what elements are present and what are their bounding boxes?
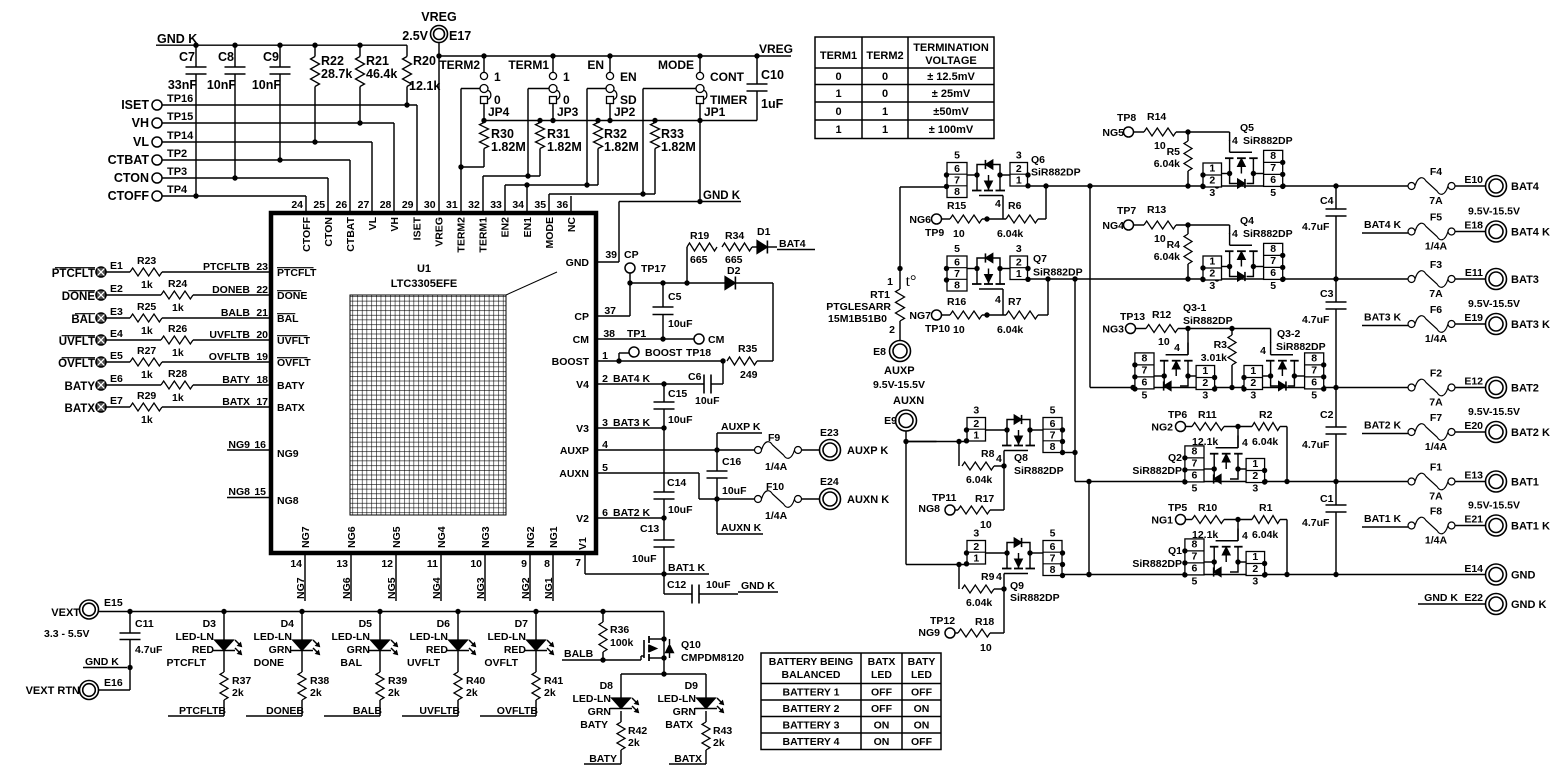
svg-text:PTCFLTB: PTCFLTB bbox=[203, 261, 250, 273]
svg-text:TP3: TP3 bbox=[167, 166, 187, 178]
svg-text:1/4A: 1/4A bbox=[1425, 535, 1448, 547]
svg-text:VREG: VREG bbox=[421, 10, 456, 24]
svg-text:ISET: ISET bbox=[121, 98, 149, 112]
svg-text:OFF: OFF bbox=[871, 687, 893, 699]
svg-text:R11: R11 bbox=[1198, 409, 1217, 421]
svg-text:RED: RED bbox=[504, 644, 527, 656]
svg-text:1.82M: 1.82M bbox=[604, 140, 639, 154]
resistor R38 2k bbox=[301, 651, 303, 673]
capacitor C10 1uF bbox=[756, 56, 758, 84]
svg-text:4: 4 bbox=[602, 439, 608, 451]
svg-text:8: 8 bbox=[1270, 243, 1276, 255]
svg-text:34: 34 bbox=[512, 199, 524, 211]
svg-text:DONEB: DONEB bbox=[212, 284, 250, 296]
svg-text:4: 4 bbox=[1174, 342, 1180, 354]
resistor R39 2k bbox=[379, 651, 381, 673]
svg-text:4.7uF: 4.7uF bbox=[1302, 221, 1330, 233]
svg-text:E2: E2 bbox=[110, 283, 123, 295]
svg-text:LTC3305EFE: LTC3305EFE bbox=[391, 278, 457, 290]
svg-text:V4: V4 bbox=[576, 379, 589, 391]
svg-text:7A: 7A bbox=[1429, 491, 1443, 503]
svg-text:2: 2 bbox=[1252, 563, 1258, 575]
svg-text:2k: 2k bbox=[713, 737, 725, 749]
svg-text:F6: F6 bbox=[1430, 304, 1442, 316]
svg-text:3: 3 bbox=[973, 405, 979, 417]
LED D5 LED-LN GRN BAL bbox=[379, 612, 381, 641]
svg-text:BATY: BATY bbox=[908, 656, 936, 668]
terminal E8 AUXP bbox=[890, 341, 911, 362]
svg-text:JP1: JP1 bbox=[704, 105, 726, 119]
svg-text:9: 9 bbox=[521, 558, 527, 570]
svg-text:1: 1 bbox=[1016, 268, 1022, 280]
svg-text:4: 4 bbox=[1242, 437, 1248, 449]
svg-text:VH: VH bbox=[132, 116, 149, 130]
svg-text:CMPDM8120: CMPDM8120 bbox=[681, 652, 744, 664]
wire pin 39 GND bbox=[618, 202, 620, 263]
svg-text:8: 8 bbox=[1192, 446, 1198, 458]
svg-text:E23: E23 bbox=[820, 427, 839, 439]
svg-text:R2: R2 bbox=[1259, 409, 1273, 421]
svg-text:R5: R5 bbox=[1167, 146, 1181, 158]
svg-text:10uF: 10uF bbox=[668, 414, 693, 426]
svg-text:NG3: NG3 bbox=[480, 526, 492, 548]
capacitor C8 bbox=[234, 45, 236, 67]
svg-text:OVFLTB: OVFLTB bbox=[497, 705, 539, 717]
resistor R30 1.82M bbox=[480, 123, 489, 149]
svg-text:TERMINATION: TERMINATION bbox=[913, 42, 989, 54]
svg-text:6.04k: 6.04k bbox=[1154, 158, 1180, 170]
svg-text:9.5V-15.5V: 9.5V-15.5V bbox=[1468, 500, 1520, 512]
svg-text:V3: V3 bbox=[576, 423, 589, 435]
svg-text:9.5V-15.5V: 9.5V-15.5V bbox=[1468, 406, 1520, 418]
svg-text:BAT4 K: BAT4 K bbox=[613, 373, 651, 385]
svg-text:SiR882DP: SiR882DP bbox=[1276, 341, 1326, 353]
svg-text:3: 3 bbox=[1016, 150, 1022, 162]
svg-text:BAT3: BAT3 bbox=[1511, 274, 1539, 286]
svg-text:1: 1 bbox=[973, 553, 979, 565]
svg-text:NG7: NG7 bbox=[295, 577, 307, 599]
wire BAT3 bus bbox=[1028, 278, 1412, 280]
svg-text:OFF: OFF bbox=[911, 687, 933, 699]
svg-text:NG6: NG6 bbox=[341, 577, 353, 599]
svg-text:1: 1 bbox=[563, 70, 570, 84]
transistor Q5 SiR882DP bbox=[1203, 163, 1222, 187]
svg-text:22: 22 bbox=[256, 284, 268, 296]
svg-text:6.04k: 6.04k bbox=[1252, 436, 1278, 448]
svg-text:E15: E15 bbox=[104, 597, 123, 609]
svg-text:NC: NC bbox=[566, 217, 578, 233]
svg-text:7: 7 bbox=[1270, 162, 1276, 174]
svg-text:UVFLTB: UVFLTB bbox=[419, 705, 460, 717]
svg-text:PTCFLT: PTCFLT bbox=[167, 657, 207, 669]
svg-text:TP7: TP7 bbox=[1117, 205, 1136, 217]
svg-text:R17: R17 bbox=[975, 493, 994, 505]
svg-text:BAT3 K: BAT3 K bbox=[613, 417, 651, 429]
svg-text:R28: R28 bbox=[168, 368, 187, 380]
svg-text:33nF: 33nF bbox=[168, 78, 198, 92]
svg-text:5: 5 bbox=[1311, 390, 1317, 402]
wire vertical AUXP-Q6Q7 x900 bbox=[899, 187, 901, 289]
transistor Q3-2 SiR882DP bbox=[1244, 366, 1263, 390]
svg-text:30: 30 bbox=[424, 199, 436, 211]
svg-text:CP: CP bbox=[624, 249, 639, 261]
svg-text:TP8: TP8 bbox=[1117, 112, 1136, 124]
svg-text:Q8: Q8 bbox=[1014, 452, 1028, 464]
LED D3 LED-LN RED PTCFLT bbox=[223, 612, 225, 641]
svg-text:C7: C7 bbox=[179, 50, 195, 64]
svg-text:10uF: 10uF bbox=[668, 504, 693, 516]
svg-text:6: 6 bbox=[1270, 267, 1276, 279]
svg-text:10: 10 bbox=[953, 228, 965, 240]
svg-text:2: 2 bbox=[1250, 377, 1256, 389]
svg-text:10uF: 10uF bbox=[722, 485, 747, 497]
svg-text:4: 4 bbox=[995, 294, 1001, 306]
svg-text:F3: F3 bbox=[1430, 259, 1442, 271]
svg-text:9.5V-15.5V: 9.5V-15.5V bbox=[1468, 206, 1520, 218]
svg-text:2: 2 bbox=[602, 373, 608, 385]
svg-text:7: 7 bbox=[575, 557, 581, 569]
svg-text:CM: CM bbox=[573, 334, 590, 346]
svg-text:21: 21 bbox=[256, 307, 268, 319]
op-amp U1 LTC3305EFE body bbox=[271, 213, 596, 553]
transistor Q6 SiR882DP bbox=[947, 163, 967, 198]
transistor Q1 SiR882DP bbox=[1246, 552, 1265, 576]
svg-text:D2: D2 bbox=[727, 265, 741, 277]
svg-text:10: 10 bbox=[1154, 140, 1166, 152]
svg-text:NG3: NG3 bbox=[475, 577, 487, 599]
svg-text:AUXP K: AUXP K bbox=[847, 445, 888, 457]
svg-text:F10: F10 bbox=[766, 481, 784, 493]
svg-text:0: 0 bbox=[835, 71, 841, 83]
transistor Q2 SiR882DP bbox=[1246, 459, 1265, 483]
svg-text:3: 3 bbox=[1209, 280, 1215, 292]
svg-text:1.82M: 1.82M bbox=[491, 140, 526, 154]
wire BAT2 bus bbox=[1090, 387, 1411, 389]
svg-text:BATX: BATX bbox=[665, 719, 693, 731]
svg-text:20: 20 bbox=[256, 329, 268, 341]
svg-text:E20: E20 bbox=[1464, 420, 1483, 432]
svg-text:35: 35 bbox=[534, 199, 546, 211]
resistor R36 100k bbox=[602, 612, 604, 623]
LED D9 LED-LN GRN BATX bbox=[705, 674, 707, 698]
svg-text:5: 5 bbox=[954, 243, 960, 255]
svg-text:R43: R43 bbox=[713, 725, 732, 737]
svg-text:4.7uF: 4.7uF bbox=[1302, 439, 1330, 451]
svg-text:F8: F8 bbox=[1430, 506, 1442, 518]
svg-text:C12: C12 bbox=[667, 579, 686, 591]
svg-text:R31: R31 bbox=[547, 127, 570, 141]
svg-text:JP3: JP3 bbox=[557, 105, 579, 119]
svg-text:1: 1 bbox=[835, 124, 841, 136]
svg-text:3.01k: 3.01k bbox=[1201, 352, 1227, 364]
svg-text:EN: EN bbox=[587, 58, 604, 72]
svg-text:TP5: TP5 bbox=[1168, 502, 1187, 514]
svg-text:E18: E18 bbox=[1464, 220, 1483, 232]
svg-text:7A: 7A bbox=[1429, 397, 1443, 409]
svg-text:BAL: BAL bbox=[277, 313, 299, 325]
svg-text:ON: ON bbox=[874, 720, 890, 732]
pin 36 NC stub bbox=[570, 196, 572, 213]
svg-text:MODE: MODE bbox=[544, 217, 556, 249]
svg-text:BATTERY 3: BATTERY 3 bbox=[783, 720, 840, 732]
svg-text:BATTERY BEING: BATTERY BEING bbox=[769, 656, 853, 668]
svg-text:R41: R41 bbox=[544, 675, 563, 687]
svg-text:ON: ON bbox=[874, 736, 890, 748]
svg-text:1: 1 bbox=[494, 70, 501, 84]
svg-text:NG5: NG5 bbox=[386, 577, 398, 599]
capacitor C1 4.7uF bbox=[1335, 482, 1337, 506]
capacitor C6 10uF bbox=[703, 375, 705, 394]
svg-text:1uF: 1uF bbox=[761, 97, 784, 111]
svg-text:CTON: CTON bbox=[114, 171, 149, 185]
svg-text:10: 10 bbox=[953, 324, 965, 336]
svg-text:14: 14 bbox=[290, 558, 302, 570]
svg-text:R38: R38 bbox=[310, 675, 329, 687]
svg-text:0: 0 bbox=[882, 71, 888, 83]
svg-text:GND K: GND K bbox=[157, 32, 197, 46]
svg-text:U1: U1 bbox=[417, 263, 431, 275]
svg-text:E16: E16 bbox=[104, 677, 123, 689]
svg-text:CM: CM bbox=[708, 334, 725, 346]
svg-text:MODE: MODE bbox=[658, 58, 694, 72]
svg-text:16: 16 bbox=[254, 439, 266, 451]
svg-text:6.04k: 6.04k bbox=[1252, 529, 1278, 541]
svg-text:7: 7 bbox=[1192, 551, 1198, 563]
svg-text:BAT1 K: BAT1 K bbox=[1511, 521, 1550, 533]
svg-text:R26: R26 bbox=[168, 323, 187, 335]
svg-text:F9: F9 bbox=[768, 432, 780, 444]
svg-text:R10: R10 bbox=[1198, 502, 1217, 514]
svg-text:E13: E13 bbox=[1464, 470, 1483, 482]
svg-text:7: 7 bbox=[1142, 365, 1148, 377]
svg-text:E3: E3 bbox=[110, 306, 123, 318]
svg-text:CTOFF: CTOFF bbox=[108, 189, 150, 203]
svg-text:LED-LN: LED-LN bbox=[332, 631, 371, 643]
svg-text:NG1: NG1 bbox=[548, 526, 560, 548]
resistor R4 6.04k bbox=[1187, 225, 1189, 234]
svg-text:LED-LN: LED-LN bbox=[254, 631, 293, 643]
svg-text:DONE: DONE bbox=[277, 290, 307, 302]
svg-text:6: 6 bbox=[954, 163, 960, 175]
svg-text:3: 3 bbox=[1209, 187, 1215, 199]
svg-text:TP14: TP14 bbox=[167, 130, 194, 142]
svg-text:E24: E24 bbox=[820, 476, 839, 488]
svg-text:GND K: GND K bbox=[703, 190, 741, 202]
svg-text:GND K: GND K bbox=[741, 580, 775, 592]
svg-text:R16: R16 bbox=[947, 296, 966, 308]
svg-text:R4: R4 bbox=[1167, 239, 1181, 251]
resistor R20 12.1k bbox=[403, 57, 412, 87]
svg-text:F7: F7 bbox=[1430, 412, 1442, 424]
LED D4 LED-LN GRN DONE bbox=[301, 612, 303, 641]
svg-text:DONE: DONE bbox=[254, 657, 284, 669]
svg-text:NG5: NG5 bbox=[1102, 127, 1124, 139]
svg-text:BATY: BATY bbox=[65, 381, 96, 393]
resistor R2 6.04k bbox=[1252, 423, 1280, 431]
svg-text:3: 3 bbox=[602, 417, 608, 429]
svg-text:BATTERY 2: BATTERY 2 bbox=[783, 703, 840, 715]
svg-text:10uF: 10uF bbox=[706, 579, 731, 591]
svg-text:1/4A: 1/4A bbox=[765, 461, 788, 473]
resistor R35 249 bbox=[727, 357, 757, 365]
LED D7 LED-LN RED OVFLT bbox=[535, 612, 537, 641]
svg-text:BAT2: BAT2 bbox=[1511, 383, 1539, 395]
svg-text:BAT4 K: BAT4 K bbox=[1511, 227, 1550, 239]
svg-text:BATY: BATY bbox=[580, 719, 608, 731]
net flag AUXN K bbox=[716, 499, 718, 534]
svg-text:10: 10 bbox=[470, 558, 482, 570]
svg-text:VH: VH bbox=[389, 217, 401, 232]
svg-text:6.04k: 6.04k bbox=[966, 474, 992, 486]
capacitor C11 4.7uF bbox=[129, 612, 131, 634]
svg-text:SiR882DP: SiR882DP bbox=[1014, 465, 1064, 477]
svg-text:2k: 2k bbox=[310, 687, 322, 699]
svg-text:C6: C6 bbox=[688, 371, 702, 383]
svg-text:CP: CP bbox=[574, 311, 589, 323]
wire top GND K rail bbox=[196, 44, 407, 46]
svg-text:TERM2: TERM2 bbox=[439, 58, 480, 72]
svg-text:2k: 2k bbox=[544, 687, 556, 699]
svg-text:± 100mV: ± 100mV bbox=[929, 124, 974, 136]
resistor R3 3.01k bbox=[1231, 329, 1233, 336]
svg-text:NG8: NG8 bbox=[918, 503, 940, 515]
svg-text:665: 665 bbox=[690, 254, 708, 266]
svg-text:OVFLT: OVFLT bbox=[484, 657, 518, 669]
resistor R42 2k bbox=[620, 711, 622, 722]
svg-text:2: 2 bbox=[973, 541, 979, 553]
svg-text:1: 1 bbox=[1250, 365, 1256, 377]
svg-text:CTBAT: CTBAT bbox=[108, 153, 150, 167]
wire EN net to pins 33,34 bbox=[587, 88, 606, 90]
svg-text:LED-LN: LED-LN bbox=[176, 631, 215, 643]
svg-text:5: 5 bbox=[1270, 187, 1276, 199]
svg-text:LED-LN: LED-LN bbox=[658, 693, 697, 705]
svg-text:Q5: Q5 bbox=[1240, 122, 1254, 134]
svg-text:R29: R29 bbox=[137, 390, 156, 402]
resistor R9 6.04k / TP12 NG9 / resistor R18 10 bbox=[958, 565, 960, 590]
svg-text:BALB: BALB bbox=[353, 705, 383, 717]
svg-text:E12: E12 bbox=[1464, 376, 1483, 388]
wire jumper bottom rail bbox=[484, 120, 757, 122]
svg-text:VL: VL bbox=[367, 216, 379, 230]
svg-text:EN: EN bbox=[620, 70, 637, 84]
svg-text:R37: R37 bbox=[232, 675, 251, 687]
svg-text:5: 5 bbox=[1050, 528, 1056, 540]
svg-text:TP16: TP16 bbox=[167, 93, 193, 105]
svg-text:C5: C5 bbox=[668, 291, 682, 303]
svg-text:SiR882DP: SiR882DP bbox=[1243, 228, 1293, 240]
svg-text:± 12.5mV: ± 12.5mV bbox=[927, 71, 975, 83]
svg-text:BATX: BATX bbox=[868, 656, 896, 668]
svg-text:NG8: NG8 bbox=[228, 486, 250, 498]
svg-text:R7: R7 bbox=[1008, 296, 1022, 308]
svg-text:4: 4 bbox=[1232, 135, 1238, 147]
svg-text:1k: 1k bbox=[141, 369, 153, 381]
svg-text:TERM2: TERM2 bbox=[866, 50, 903, 62]
net flag GND K (jumper) bbox=[619, 201, 741, 203]
svg-text:OFF: OFF bbox=[911, 736, 933, 748]
svg-text:TERM1: TERM1 bbox=[508, 58, 549, 72]
svg-text:15: 15 bbox=[254, 486, 266, 498]
resistor R43 2k bbox=[705, 711, 707, 722]
svg-text:100k: 100k bbox=[610, 637, 634, 649]
svg-text:BAT2 K: BAT2 K bbox=[1511, 427, 1550, 439]
svg-text:Q1: Q1 bbox=[1168, 545, 1182, 557]
svg-text:0: 0 bbox=[835, 106, 841, 118]
svg-text:2: 2 bbox=[1252, 470, 1258, 482]
svg-text:OVFLT: OVFLT bbox=[58, 358, 95, 370]
svg-text:TP2: TP2 bbox=[167, 148, 187, 160]
fuse F4 7A / terminal E10 BAT4 bbox=[1408, 183, 1415, 190]
svg-text:1: 1 bbox=[882, 106, 888, 118]
svg-text:1: 1 bbox=[1252, 551, 1258, 563]
resistor R19 665 bbox=[686, 247, 688, 283]
svg-text:R25: R25 bbox=[137, 301, 156, 313]
svg-text:1k: 1k bbox=[172, 392, 184, 404]
svg-text:BAT1: BAT1 bbox=[1511, 477, 1539, 489]
svg-text:BALB: BALB bbox=[564, 648, 594, 660]
svg-text:7A: 7A bbox=[1429, 195, 1443, 207]
svg-text:Q4: Q4 bbox=[1240, 215, 1254, 227]
svg-text:OFF: OFF bbox=[871, 703, 893, 715]
svg-text:6.04k: 6.04k bbox=[997, 324, 1023, 336]
svg-text:6.04k: 6.04k bbox=[966, 597, 992, 609]
svg-text:R42: R42 bbox=[628, 725, 647, 737]
svg-text:E4: E4 bbox=[110, 328, 123, 340]
svg-text:46.4k: 46.4k bbox=[366, 67, 397, 81]
svg-text:6: 6 bbox=[1142, 377, 1148, 389]
svg-text:LED: LED bbox=[911, 669, 932, 681]
fuse F3 7A / terminal E11 BAT3 bbox=[1408, 276, 1415, 283]
svg-text:TERM1: TERM1 bbox=[478, 217, 490, 253]
svg-text:JP4: JP4 bbox=[488, 105, 510, 119]
svg-text:GND: GND bbox=[1511, 570, 1536, 582]
svg-text:NG9: NG9 bbox=[228, 439, 250, 451]
svg-text:26: 26 bbox=[336, 199, 348, 211]
svg-text:R21: R21 bbox=[366, 54, 389, 68]
wire MODE net to pin 35 bbox=[643, 88, 696, 90]
svg-text:BAT1 K: BAT1 K bbox=[668, 562, 706, 574]
svg-text:4: 4 bbox=[1242, 530, 1248, 542]
svg-text:12.1k: 12.1k bbox=[409, 79, 440, 93]
svg-text:E17: E17 bbox=[449, 29, 471, 43]
svg-text:R24: R24 bbox=[168, 278, 187, 290]
svg-text:E1: E1 bbox=[110, 260, 123, 272]
svg-text:BALB: BALB bbox=[221, 307, 251, 319]
transistor Q4 SiR882DP bbox=[1203, 256, 1222, 280]
svg-text:23: 23 bbox=[256, 261, 268, 273]
wire Q8 drain to V1075 bbox=[1061, 452, 1076, 454]
svg-text:5: 5 bbox=[1192, 576, 1198, 588]
svg-text:V2: V2 bbox=[576, 513, 589, 525]
svg-text:2: 2 bbox=[1202, 377, 1208, 389]
svg-text:JP2: JP2 bbox=[614, 105, 636, 119]
svg-text:R27: R27 bbox=[137, 345, 156, 357]
svg-text:1: 1 bbox=[1209, 163, 1215, 175]
svg-text:C13: C13 bbox=[640, 523, 659, 535]
svg-text:VOLTAGE: VOLTAGE bbox=[925, 55, 977, 67]
svg-text:BAL: BAL bbox=[340, 657, 362, 669]
svg-text:E9: E9 bbox=[884, 415, 897, 427]
svg-text:D4: D4 bbox=[281, 618, 295, 630]
svg-text:GRN: GRN bbox=[269, 644, 292, 656]
svg-text:R19: R19 bbox=[690, 230, 709, 242]
svg-text:NG2: NG2 bbox=[525, 526, 537, 548]
svg-text:E6: E6 bbox=[110, 373, 123, 385]
svg-text:C8: C8 bbox=[218, 50, 234, 64]
svg-text:10uF: 10uF bbox=[695, 395, 720, 407]
svg-text:D7: D7 bbox=[515, 618, 529, 630]
